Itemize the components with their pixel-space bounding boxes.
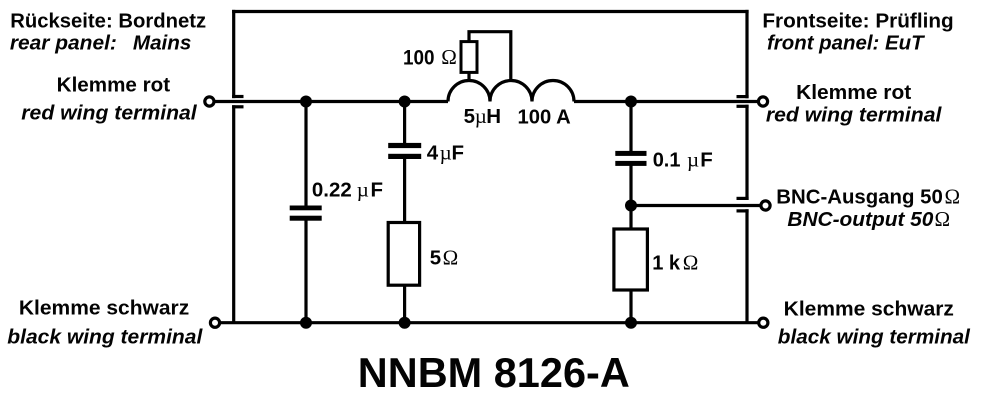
wire BNC output line	[631, 204, 760, 207]
junction node bottom B	[399, 317, 411, 329]
svg-text:0.1: 0.1	[653, 148, 681, 171]
wire branch B middle	[403, 158, 406, 223]
wire left vertical upper segment	[232, 10, 235, 98]
svg-text:Ω: Ω	[945, 185, 961, 209]
wire bottom rail	[221, 321, 758, 324]
svg-text:F: F	[452, 141, 465, 164]
svg-text:NNBM 8126-A: NNBM 8126-A	[358, 350, 630, 395]
junction node top C	[625, 96, 637, 108]
wire branch C upper	[629, 102, 632, 152]
svg-text:4: 4	[427, 141, 439, 164]
wire crossover tick right-1	[737, 95, 749, 98]
wire right vertical lower segment	[745, 209, 748, 322]
junction node bottom A	[300, 317, 312, 329]
svg-text:µ: µ	[357, 178, 369, 202]
svg-text:BNC-output 50: BNC-output 50	[787, 208, 934, 231]
wire branch A upper	[304, 102, 307, 207]
wire crossover tick left-bottom	[232, 105, 243, 108]
wire crossover tick right-3	[737, 197, 749, 200]
svg-text:rear panel:: rear panel:	[10, 32, 117, 55]
svg-text:F: F	[371, 179, 384, 202]
svg-text:F: F	[700, 148, 713, 171]
svg-text:0.22: 0.22	[312, 179, 352, 202]
wire crossover tick right-2	[737, 105, 749, 108]
resistor R1 100 ohm body	[461, 42, 477, 73]
terminal BNC output	[761, 201, 770, 210]
svg-text:black wing terminal: black wing terminal	[778, 326, 971, 349]
capacitor C1 0.22uF plates	[290, 206, 322, 221]
wire branch C middle	[629, 165, 632, 230]
svg-text:Frontseite: Prüfling: Frontseite: Prüfling	[762, 10, 953, 33]
wire branch B lower	[403, 284, 406, 323]
svg-text:µ: µ	[687, 147, 699, 171]
svg-text:front panel: EuT: front panel: EuT	[767, 32, 925, 55]
terminal black right	[759, 318, 768, 327]
wire branch C lower	[629, 289, 632, 323]
svg-text:µ: µ	[440, 140, 452, 164]
wire right vertical upper segment	[745, 10, 748, 98]
svg-text:black wing terminal: black wing terminal	[7, 326, 203, 349]
svg-text:5: 5	[430, 247, 441, 270]
svg-text:Klemme rot: Klemme rot	[796, 81, 911, 104]
wire branch A lower	[304, 220, 307, 323]
capacitor C3 0.1uF plates	[615, 151, 646, 166]
junction node BNC tap	[625, 200, 637, 212]
terminal red left	[205, 97, 214, 106]
svg-text:Ω: Ω	[683, 250, 699, 274]
svg-text:100: 100	[403, 45, 435, 69]
junction node top A	[300, 96, 312, 108]
terminal red right	[758, 97, 767, 106]
svg-text:Klemme schwarz: Klemme schwarz	[19, 296, 189, 319]
resistor R3 1 kohm body	[614, 229, 648, 290]
svg-text:red wing terminal: red wing terminal	[766, 104, 943, 127]
svg-text:Ω: Ω	[443, 246, 459, 270]
svg-text:µ: µ	[475, 104, 487, 128]
svg-text:Rückseite: Bordnetz: Rückseite: Bordnetz	[10, 10, 206, 33]
svg-text:100 A: 100 A	[518, 106, 571, 129]
wire right vertical middle segment	[745, 105, 748, 200]
svg-text:BNC-Ausgang 50: BNC-Ausgang 50	[776, 186, 943, 209]
svg-text:Klemme rot: Klemme rot	[57, 73, 171, 96]
wire red terminal line right	[574, 100, 758, 103]
capacitor C2 4uF plates	[388, 143, 421, 159]
wire crossover tick left-top	[232, 95, 243, 98]
terminal black left	[210, 318, 219, 327]
wire red terminal line left	[214, 100, 448, 103]
svg-text:5: 5	[464, 105, 475, 128]
wire left vertical lower segment	[232, 105, 235, 323]
svg-text:Klemme schwarz: Klemme schwarz	[784, 298, 954, 321]
svg-text:H: H	[486, 105, 501, 128]
wire branch B upper	[403, 102, 406, 144]
svg-text:Mains: Mains	[133, 32, 192, 55]
inductor L1 5uH 100A	[448, 81, 574, 102]
svg-text:red wing terminal: red wing terminal	[21, 102, 198, 125]
wire crossover tick right-4	[737, 209, 749, 212]
wire top rail	[232, 10, 749, 13]
junction node bottom C	[625, 317, 637, 329]
svg-text:1 k: 1 k	[652, 251, 680, 274]
resistor R1 100 ohm bottom lead	[467, 72, 470, 81]
junction node top B	[399, 96, 411, 108]
resistor R2 5 ohm body	[388, 223, 419, 286]
svg-text:Ω: Ω	[441, 45, 457, 69]
svg-text:Ω: Ω	[935, 207, 951, 231]
resistor R1 100 ohm top lead	[469, 32, 511, 81]
